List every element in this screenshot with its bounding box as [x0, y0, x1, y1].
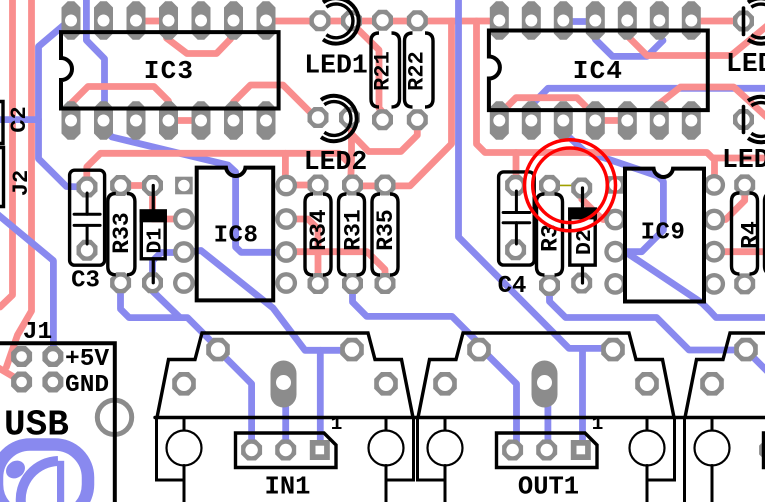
wire D2 anode to IC9 pin 2 — [582, 188, 616, 220]
connector J2 partial outline left edge — [0, 148, 4, 207]
wire IC4 pin 13 long horizontal to right edge — [531, 88, 765, 118]
resistor R31 — [339, 194, 367, 275]
wire IC9 pin 3 across body toward jack J3 — [615, 252, 765, 318]
resistor R3 — [537, 194, 564, 275]
svg-text:LED3: LED3 — [726, 49, 765, 79]
LED3 outline — [748, 0, 765, 44]
svg-text:J2: J2 — [9, 170, 34, 196]
wire IC3 pin 8 through LED1 R21 R22 to IC4 pin 1 — [266, 18, 499, 25]
selection highlight circles — [525, 140, 616, 231]
resistor R21 — [371, 33, 400, 107]
wire R33 to IN1 contact and pad — [121, 284, 220, 350]
diode D1 — [140, 186, 168, 283]
svg-text:R21: R21 — [371, 51, 396, 91]
capacitor C4 — [498, 172, 535, 300]
svg-text:C4: C4 — [498, 273, 527, 300]
wire LED2 cathode down to R31 top — [351, 118, 352, 187]
connector OUT1 pads — [433, 338, 659, 461]
connector J1 pads 2x2 — [11, 346, 63, 393]
diode D2 — [568, 188, 597, 283]
svg-text:C3: C3 — [71, 268, 100, 295]
wire IC3 pin 11 to pin 9 dip — [167, 21, 231, 54]
wire IC8 pin 8 to R34 top — [286, 182, 318, 189]
connector J3 pads CXFIX — [700, 338, 765, 461]
wire R3 to jack J3 contact — [550, 285, 765, 374]
wire R33 top to D1 anode — [121, 182, 153, 189]
wire top-layer vertical A left edge — [0, 0, 13, 307]
pads for LEDs resistors diodes capacitors — [77, 10, 756, 296]
connector IN1 pads — [172, 338, 398, 461]
resistor R35 — [372, 194, 399, 275]
wire IC8 pin 6 to R35 bottom — [286, 252, 385, 284]
svg-text:IN1: IN1 — [265, 473, 311, 502]
svg-text:R22: R22 — [405, 51, 430, 91]
jack base long horizontal line — [155, 416, 765, 419]
wire IC4 pin 12 to IC9 notch to IC9 pin 3 — [562, 118, 663, 252]
wire IC3 pins 4-5 bridge — [169, 117, 202, 124]
svg-text:C2: C2 — [7, 106, 32, 132]
wire branch to OUT1 pad 1 square — [579, 348, 586, 449]
wire IC4 pin 7 toward LED3 — [691, 18, 743, 25]
op-amp IC8 pads — [173, 175, 297, 294]
wire IC4 pin 5 to right edge horizontal — [628, 25, 765, 56]
wire into J1 GND pad from left edge — [0, 367, 22, 382]
wire bus junction down to R34 top — [350, 21, 452, 186]
wire C3 top to R31 top long horizontal — [87, 153, 351, 187]
connector J3 partial body outline — [685, 333, 765, 418]
wire D1 cathode branch toward IN1 — [153, 285, 181, 318]
svg-text:D1: D1 — [144, 228, 168, 254]
USB logo blue emblem — [0, 445, 88, 502]
wire IC3 pins 11-12 bridge top — [135, 18, 167, 25]
airwire unrouted R3 to D2 — [549, 184, 582, 186]
LED1 outline — [323, 0, 359, 44]
wire IC8 pin 3 across body to IN1 sleeve — [184, 251, 352, 351]
svg-text:GND: GND — [65, 372, 109, 399]
resistor R33 — [108, 194, 135, 275]
wire IC3 pin 6 to LED2 anode — [234, 85, 316, 118]
svg-text:IC9: IC9 — [641, 220, 686, 247]
wire branch to IC9 pin 8 — [711, 158, 718, 185]
wire IC9 pin 6 to right edge — [714, 248, 765, 255]
resistor R4 — [732, 193, 764, 274]
wire IC4 pin 4 elbow to pin 6 — [595, 28, 663, 56]
wire IC8 pin 7 to R34 bottom — [286, 219, 318, 284]
wire D1 cathode to IC8 pin 3 — [153, 253, 184, 284]
svg-text:R31: R31 — [341, 209, 367, 250]
svg-text:R35: R35 — [373, 209, 399, 250]
svg-text:1: 1 — [331, 413, 343, 435]
wire bus junction down to long horizontal to right edge — [477, 21, 765, 158]
wire top-layer vertical B left edge toward J1 — [6, 0, 31, 367]
op-amp IC9 body outline — [625, 169, 704, 302]
resistor R34 — [305, 194, 332, 275]
mounting hole ring — [97, 400, 131, 434]
svg-text:LED2: LED2 — [304, 147, 368, 177]
wire IC4 pins 4-5 bridge bottom — [595, 117, 627, 124]
op-amp IC8 body outline — [197, 168, 274, 301]
wire OUT1 slot to middle pad — [545, 392, 552, 449]
wire branch down to IC8 pin 8 — [282, 153, 289, 185]
svg-text:+5V: +5V — [65, 346, 109, 373]
wire IC9 pin 7 to R4 top — [714, 185, 745, 220]
svg-text:R33: R33 — [109, 212, 135, 253]
wire bottom net IC3 pin1 to C3 top area — [39, 19, 88, 187]
wire IC4 pin 1 to pin 4 inner loop — [499, 98, 595, 121]
wire IC3 pin 9 to IC8 notch to IC8 pin 8 — [104, 120, 287, 252]
wire to J1 +5V pad over red — [0, 213, 53, 357]
svg-text:R4: R4 — [738, 221, 764, 249]
capacitor C3 — [70, 170, 105, 294]
wire D1 anode to IC8 pin 2 — [153, 186, 184, 220]
wire bottom vertical into IC3 pin 9 — [86, 0, 104, 118]
wire branch to C4 top — [513, 153, 520, 186]
logic IC4 body outline — [489, 31, 708, 111]
svg-text:LED4: LED4 — [722, 145, 765, 175]
connector IN1 body outline — [157, 333, 414, 502]
wire R31 to OUT1 tip contact — [353, 284, 487, 351]
wire IN1 slot to middle pad — [282, 392, 289, 450]
capacitor C2 partial outline left edge — [0, 102, 3, 144]
connector OUT1 body outline — [418, 333, 675, 502]
wire LED2 cathode to R22 bottom — [352, 118, 418, 152]
USB connector box outline — [0, 343, 115, 502]
wire OUT1 tip contact to OUT1 left pad — [483, 350, 517, 450]
wire long vertical from top edge to OUT1 — [459, 0, 615, 348]
wire LED1 cathode to R21 bottom — [352, 23, 383, 120]
op-amp IC3 body outline — [61, 32, 279, 108]
wire IC4 pins 3-4 bridge top — [562, 18, 595, 25]
op-amp/logic IC3 pads (14-pin DIP) — [62, 1, 276, 139]
wire IC3 pin 1 to pin 4 inner loop — [71, 87, 169, 121]
LED4 outline — [748, 97, 765, 142]
LED2 outline — [321, 96, 357, 141]
logic IC4 pads (14-pin DIP) — [490, 1, 701, 139]
svg-text:IC4: IC4 — [573, 56, 623, 86]
svg-text:OUT1: OUT1 — [518, 473, 579, 502]
resistor R22 — [405, 33, 434, 107]
op-amp IC9 pads — [604, 174, 725, 295]
svg-text:IC3: IC3 — [144, 56, 194, 86]
svg-text:LED1: LED1 — [304, 51, 368, 81]
svg-text:R34: R34 — [306, 209, 332, 251]
wire branch to IN1 pad 1 square — [317, 350, 324, 449]
wire IC4 pin 10 toward LED4 — [660, 87, 765, 120]
svg-text:IC8: IC8 — [214, 223, 259, 250]
svg-text:1: 1 — [592, 413, 604, 435]
wire C2 horizontal over red — [0, 116, 39, 123]
svg-text:D2: D2 — [573, 229, 597, 255]
